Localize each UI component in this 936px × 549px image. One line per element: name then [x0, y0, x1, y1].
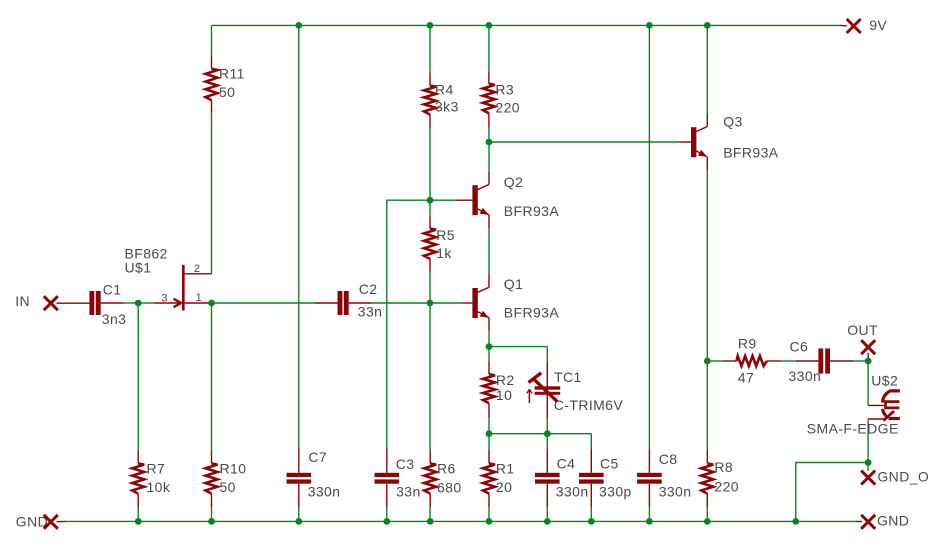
svg-text:GND: GND: [877, 513, 909, 529]
svg-text:R6: R6: [437, 461, 456, 477]
wire node to Q3 base: [489, 141, 678, 143]
port OUT: [847, 322, 878, 361]
wire C1 to gate node: [124, 302, 138, 304]
junction: [427, 518, 434, 525]
junction: [792, 518, 799, 525]
junction: [544, 430, 551, 437]
resistor R9 (47): [723, 336, 781, 386]
svg-text:IN: IN: [15, 293, 30, 309]
svg-text:OUT: OUT: [847, 322, 878, 338]
svg-text:Q1: Q1: [504, 276, 523, 292]
pin number 3: [161, 293, 167, 305]
wire OUT node to U$2 pin: [867, 361, 869, 405]
svg-text:R4: R4: [435, 82, 454, 98]
junction: [383, 518, 390, 525]
svg-text:BFR93A: BFR93A: [504, 305, 560, 321]
wire source node to C2: [212, 302, 316, 304]
wire emitter node to TC1: [489, 346, 547, 348]
svg-text:R9: R9: [738, 336, 757, 352]
wire Q1 base lead: [461, 302, 472, 304]
wire node to R7: [137, 303, 139, 450]
junction: [427, 197, 434, 204]
wire R2 to node: [488, 418, 490, 434]
junction: [704, 22, 711, 29]
wire node to R8: [706, 361, 708, 450]
capacitor C4 (330n): [535, 449, 589, 508]
pin number 2: [194, 263, 200, 275]
capacitor C2 (33n): [315, 281, 382, 319]
wire Q3 emitter to node: [706, 170, 708, 361]
wire TC1 to node: [546, 418, 548, 433]
svg-text:GND_O: GND_O: [877, 469, 929, 485]
capacitor C8 (330n): [637, 449, 691, 508]
svg-text:330n: 330n: [556, 484, 589, 500]
pin number 1: [196, 292, 202, 304]
wire R8 to GND rail: [706, 507, 708, 521]
svg-text:C8: C8: [659, 451, 678, 467]
wire source node to R10: [211, 303, 213, 450]
svg-text:R1: R1: [496, 461, 515, 477]
resistor R5 (1k): [424, 216, 455, 272]
svg-text:C2: C2: [359, 281, 378, 297]
svg-text:BFR93A: BFR93A: [504, 203, 560, 219]
wire R11 to Q drain: [211, 113, 213, 274]
svg-text:220: 220: [495, 100, 520, 116]
resistor R10 (50): [206, 450, 247, 507]
wire R1 to GND rail: [488, 507, 490, 521]
wire R10 to GND rail: [211, 507, 213, 521]
wire 9V to R3: [488, 25, 490, 71]
svg-text:220: 220: [714, 478, 739, 494]
junction: [865, 358, 872, 365]
junction: [295, 22, 302, 29]
wire C8 to GND rail: [648, 507, 650, 521]
svg-text:R10: R10: [220, 461, 247, 477]
svg-text:1: 1: [196, 292, 202, 304]
trimmer capacitor TC1 (C-TRIM6V): [527, 362, 624, 419]
wire node to R2: [488, 347, 490, 362]
svg-text:3k3: 3k3: [435, 98, 459, 114]
svg-text:330p: 330p: [599, 484, 632, 500]
wire node to R1: [488, 434, 490, 451]
capacitor C3 (33n): [375, 449, 421, 508]
junction: [427, 22, 434, 29]
wire GND bottom rail: [66, 520, 856, 522]
junction: [704, 358, 711, 365]
junction: [646, 22, 653, 29]
svg-text:SMA-F-EDGE: SMA-F-EDGE: [807, 421, 899, 437]
wire node R1-C4-C5: [489, 433, 591, 435]
wire Q1 emitter to node: [488, 331, 490, 347]
wire R6 to GND rail: [429, 507, 431, 521]
wire 9V to C7: [298, 25, 300, 448]
wire C5 to GND rail: [590, 507, 592, 521]
svg-text:U$2: U$2: [871, 373, 898, 389]
connector U$2 (SMA-F-EDGE): [807, 373, 900, 437]
svg-text:BFR93A: BFR93A: [723, 145, 779, 161]
wire R11 top: [211, 25, 213, 56]
svg-text:20: 20: [496, 479, 512, 495]
transistor Q1 (BFR93A): [472, 275, 559, 331]
svg-text:R3: R3: [495, 81, 514, 97]
svg-text:C3: C3: [396, 456, 415, 472]
svg-text:2: 2: [194, 263, 200, 275]
wire to C4: [546, 434, 548, 449]
junction: [544, 518, 551, 525]
wire R3 to node: [488, 128, 490, 142]
svg-text:R5: R5: [436, 227, 455, 243]
svg-text:47: 47: [738, 370, 754, 386]
port GND right: [856, 513, 910, 529]
wire node to Q2 base: [430, 199, 457, 201]
junction: [486, 430, 493, 437]
svg-text:680: 680: [437, 480, 462, 496]
wire to C5: [590, 434, 592, 449]
junction: [486, 518, 493, 525]
wire C4 to GND rail: [546, 507, 548, 521]
wire 9V top rail: [212, 24, 840, 26]
junction: [865, 459, 872, 466]
svg-text:50: 50: [219, 84, 235, 100]
wire Q2 emitter to Q1 collector: [488, 228, 490, 275]
wire GND_O node to GND rail: [796, 463, 868, 522]
jfet U$1 (BF862): [125, 246, 212, 311]
wire R5 to base node: [429, 272, 431, 304]
resistor R8 (220): [701, 450, 739, 507]
svg-text:3n3: 3n3: [102, 311, 127, 327]
junction: [208, 300, 215, 307]
junction: [135, 300, 142, 307]
capacitor C6 (330n): [789, 339, 854, 384]
svg-text:330n: 330n: [789, 368, 822, 384]
resistor R3 (220): [483, 71, 520, 127]
junction: [208, 518, 215, 525]
port GND left: [16, 514, 66, 530]
wire 9V to Q3 collector: [706, 25, 708, 113]
junction: [704, 518, 711, 525]
svg-text:C4: C4: [557, 455, 576, 471]
wire GND_O node to pin: [867, 463, 869, 471]
wire base node to R6: [429, 303, 431, 450]
wire R7 to GND rail: [137, 507, 139, 521]
svg-text:TC1: TC1: [554, 369, 582, 385]
svg-text:C5: C5: [600, 455, 619, 471]
svg-text:33n: 33n: [396, 484, 421, 500]
resistor R2 (10): [483, 361, 515, 418]
svg-text:1k: 1k: [436, 245, 452, 261]
svg-text:U$1: U$1: [125, 260, 152, 276]
svg-text:330n: 330n: [659, 484, 692, 500]
svg-text:R8: R8: [714, 459, 733, 475]
wire node to R9: [707, 360, 722, 362]
svg-text:10: 10: [496, 387, 512, 403]
junction: [588, 518, 595, 525]
junction: [135, 518, 142, 525]
wire to TC1 top: [546, 347, 548, 362]
wire node to Q2 collector: [488, 142, 490, 172]
junction: [486, 22, 493, 29]
junction: [486, 139, 493, 146]
wire gate node: [138, 302, 154, 304]
port IN: [15, 293, 89, 310]
svg-text:C1: C1: [103, 282, 122, 298]
resistor R7 (10k): [132, 450, 171, 507]
resistor R1 (20): [483, 450, 515, 507]
svg-text:R2: R2: [496, 372, 515, 388]
resistor R11 (50): [206, 56, 245, 112]
svg-text:10k: 10k: [147, 479, 171, 495]
wire C2 to Q1 base: [371, 302, 461, 304]
transistor Q2 (BFR93A): [472, 172, 559, 228]
transistor Q3 (BFR93A): [691, 114, 779, 170]
wire 9V to R4: [429, 25, 431, 72]
svg-text:R7: R7: [147, 461, 166, 477]
svg-text:33n: 33n: [358, 304, 383, 320]
svg-text:9V: 9V: [869, 17, 887, 33]
svg-text:3: 3: [161, 293, 167, 305]
capacitor C5 (330p): [579, 449, 632, 508]
junction: [295, 518, 302, 525]
junction: [427, 300, 434, 307]
junction: [486, 343, 493, 350]
wire Q3 base: [678, 141, 691, 143]
svg-text:Q2: Q2: [504, 174, 523, 190]
wire R4 to R5: [429, 128, 431, 216]
svg-text:C-TRIM6V: C-TRIM6V: [554, 397, 624, 413]
wire C3 to GND rail: [386, 507, 388, 521]
wire Q2 base lead: [457, 199, 473, 201]
svg-text:C6: C6: [790, 339, 809, 355]
wire U$2 shield to GND_O node: [867, 419, 869, 462]
svg-text:50: 50: [220, 479, 236, 495]
svg-text:R11: R11: [219, 65, 245, 81]
port 9V: [840, 17, 888, 33]
wire Q2 base corner to C3: [387, 200, 430, 448]
junction: [646, 518, 653, 525]
capacitor C7 (330n): [287, 449, 341, 508]
wire 9V to C8: [648, 25, 650, 448]
svg-text:C7: C7: [308, 449, 327, 465]
resistor R4 (3k3): [424, 73, 459, 128]
wire R9 to C6: [781, 360, 796, 362]
resistor R6 (680): [424, 450, 461, 507]
svg-text:Q3: Q3: [723, 114, 742, 130]
svg-text:330n: 330n: [308, 484, 341, 500]
port GND_O: [861, 469, 929, 485]
capacitor C1 (3n3): [89, 282, 126, 328]
wire C7 to GND rail: [298, 507, 300, 521]
wire C6 to OUT node: [854, 360, 869, 362]
